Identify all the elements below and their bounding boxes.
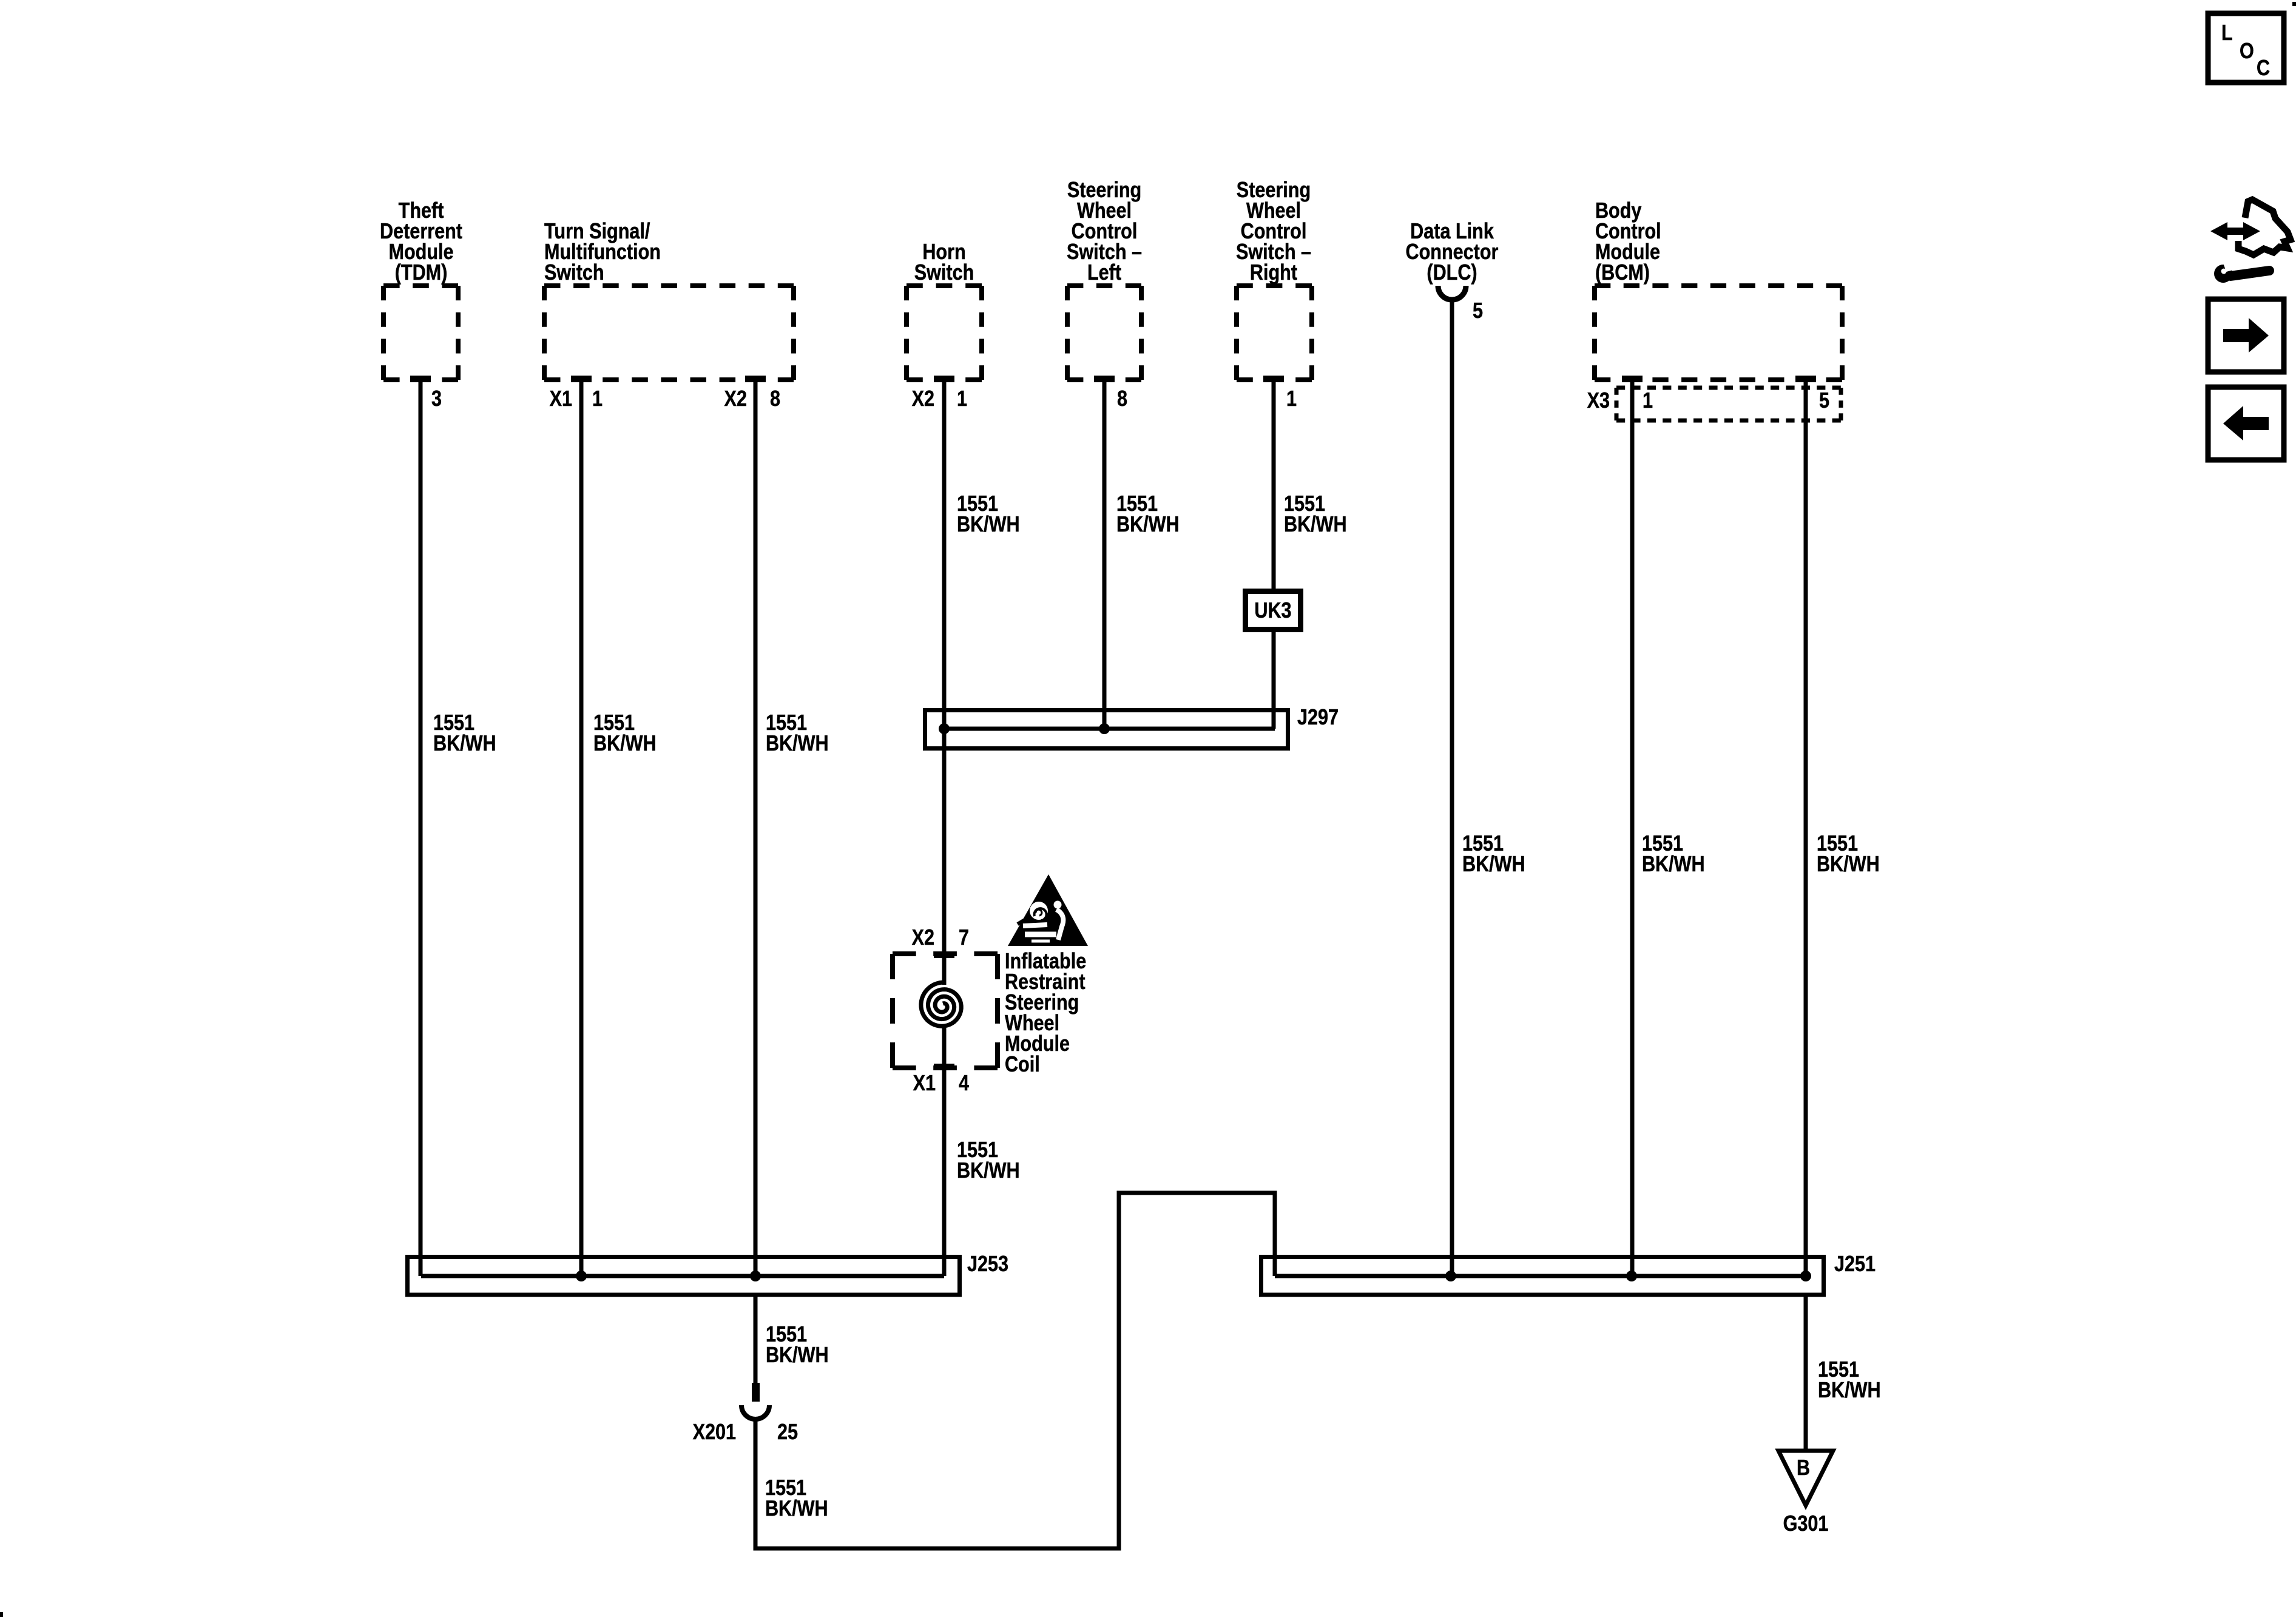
svg-text:1: 1 <box>957 387 967 411</box>
svg-text:BK/WH: BK/WH <box>765 1497 828 1521</box>
module BCM (Body Control Module) <box>1595 199 1842 380</box>
svg-text:B: B <box>1797 1456 1810 1480</box>
wire UK3 to J297 <box>1272 632 1276 729</box>
inline connector X201 pin 25 <box>693 1383 798 1445</box>
svg-text:25: 25 <box>777 1420 798 1445</box>
svg-text:BK/WH: BK/WH <box>957 513 1020 537</box>
page corner mark bottom left <box>0 1612 3 1617</box>
module TDM (Theft Deterrent Module) <box>380 199 462 380</box>
svg-text:J253: J253 <box>967 1252 1008 1277</box>
svg-text:BK/WH: BK/WH <box>433 732 496 756</box>
svg-text:BK/WH: BK/WH <box>1818 1379 1881 1403</box>
pin X2-8 of Turn Signal switch <box>724 376 780 411</box>
junction dot J297 SWC-L wire <box>1099 723 1110 734</box>
wire horn through J297 to coil <box>942 751 947 985</box>
wire Turn Signal X1-1 to J253 (1551 BK/WH) <box>581 380 657 1276</box>
svg-text:BK/WH: BK/WH <box>593 732 657 756</box>
wire SWC Left pin8 to J297 (1551 BK/WH) <box>1104 380 1180 729</box>
svg-text:X1: X1 <box>550 387 572 411</box>
svg-text:Switch: Switch <box>544 261 604 285</box>
svg-text:X201: X201 <box>693 1420 736 1445</box>
coil winding symbol <box>921 982 961 1026</box>
svg-text:8: 8 <box>1117 387 1127 411</box>
svg-text:BK/WH: BK/WH <box>1284 513 1347 537</box>
junction dot J251 BCM X3-1 wire <box>1626 1271 1637 1281</box>
diagnostic icon (double arrow, body outline, wrench) <box>2210 200 2291 283</box>
svg-text:Left: Left <box>1087 261 1121 285</box>
svg-text:UK3: UK3 <box>1254 599 1291 623</box>
module Horn Switch <box>907 240 982 380</box>
airbag warning triangle <box>1008 874 1088 946</box>
wire DLC pin5 to J251 (1551 BK/WH) <box>1452 300 1525 1276</box>
pin X1-4 of coil <box>913 1064 970 1096</box>
pin X2-7 of coil <box>912 926 969 958</box>
svg-text:X2: X2 <box>724 387 747 411</box>
svg-text:BK/WH: BK/WH <box>1116 513 1180 537</box>
svg-text:5: 5 <box>1819 389 1829 413</box>
wire coil X1-4 down to J253 (1551 BK/WH) <box>944 1026 1020 1276</box>
svg-text:Right: Right <box>1250 261 1297 285</box>
svg-text:J297: J297 <box>1297 706 1339 730</box>
wire J253 to X201 (1551 BK/WH) <box>755 1295 829 1384</box>
connector X3 of BCM <box>1587 388 1841 420</box>
svg-text:Coil: Coil <box>1005 1053 1040 1077</box>
svg-text:Switch: Switch <box>914 261 974 285</box>
pin X2-1 of Horn Switch <box>912 376 967 411</box>
svg-text:X1: X1 <box>913 1072 936 1096</box>
pin 8 of SWC Switch Left <box>1094 376 1127 411</box>
module Steering Wheel Control Switch - Right <box>1236 178 1312 380</box>
svg-text:BK/WH: BK/WH <box>957 1159 1020 1183</box>
svg-text:1: 1 <box>1643 389 1653 413</box>
svg-text:X2: X2 <box>912 926 934 950</box>
pin 3 of TDM <box>410 376 442 411</box>
wire Horn Switch to J297 and coil (1551 BK/WH) <box>944 380 1020 983</box>
svg-text:5: 5 <box>1473 299 1483 323</box>
junction dot J251 BCM X3-5 wire <box>1800 1271 1811 1281</box>
wire X201 to J251 (1551 BK/WH) <box>755 1193 1275 1548</box>
wire J251 to ground G301 (1551 BK/WH) <box>1806 1295 1881 1451</box>
wire SWC Right pin1 to UK3 (1551 BK/WH) <box>1274 380 1347 589</box>
svg-text:1: 1 <box>592 387 603 411</box>
page corner mark top right <box>2292 2 2296 6</box>
junction dot J251 DLC wire <box>1445 1271 1456 1281</box>
pin 1 of SWC Switch Right <box>1263 376 1297 411</box>
svg-text:(BCM): (BCM) <box>1595 261 1650 285</box>
fuse UK3 <box>1246 592 1301 630</box>
svg-text:(DLC): (DLC) <box>1427 261 1477 285</box>
pin X1-1 of Turn Signal switch <box>550 376 603 411</box>
wire BCM X3-5 to J251 (1551 BK/WH) <box>1806 380 1880 1276</box>
svg-text:7: 7 <box>959 926 969 950</box>
svg-text:X3: X3 <box>1587 389 1610 413</box>
splice pack J297 <box>925 706 1339 749</box>
splice pack J251 <box>1261 1252 1876 1295</box>
svg-text:J251: J251 <box>1834 1252 1876 1277</box>
splice pack J253 <box>408 1252 1009 1295</box>
svg-text:(TDM): (TDM) <box>395 261 448 285</box>
svg-text:4: 4 <box>959 1072 969 1096</box>
svg-text:BK/WH: BK/WH <box>1817 852 1880 877</box>
svg-text:BK/WH: BK/WH <box>1462 852 1525 877</box>
svg-text:X2: X2 <box>912 387 934 411</box>
ground G301 <box>1778 1451 1833 1536</box>
pin 1 of BCM X3 <box>1622 376 1653 413</box>
module Turn Signal / Multifunction Switch <box>544 220 794 380</box>
svg-text:C: C <box>2257 56 2270 81</box>
module Inflatable Restraint Steering Wheel Module Coil <box>893 950 1086 1077</box>
svg-text:8: 8 <box>770 387 780 411</box>
pin 5 of BCM X3 <box>1795 376 1829 413</box>
svg-text:O: O <box>2240 39 2254 64</box>
svg-text:3: 3 <box>431 387 442 411</box>
wire Turn Signal X2-8 to J253 (1551 BK/WH) <box>755 380 829 1276</box>
svg-text:G301: G301 <box>1783 1512 1829 1536</box>
LOC reference box <box>2208 13 2284 83</box>
svg-text:L: L <box>2221 21 2233 46</box>
svg-text:BK/WH: BK/WH <box>766 1343 829 1368</box>
hyperlink arrow box (back) <box>2208 387 2284 460</box>
junction dot J253 X1 wire <box>576 1271 587 1281</box>
junction dot J297 horn wire <box>939 723 950 734</box>
svg-text:BK/WH: BK/WH <box>766 732 829 756</box>
junction dot J253 X2 wire <box>750 1271 761 1281</box>
connector DLC (Data Link Connector) <box>1406 220 1499 300</box>
svg-text:BK/WH: BK/WH <box>1642 852 1705 877</box>
wire BCM X3-1 to J251 (1551 BK/WH) <box>1632 380 1705 1276</box>
wire TDM pin3 to J253 (1551 BK/WH) <box>420 380 496 1276</box>
hyperlink arrow box (forward) <box>2208 299 2284 372</box>
svg-text:1: 1 <box>1286 387 1297 411</box>
module Steering Wheel Control Switch - Left <box>1067 178 1142 380</box>
